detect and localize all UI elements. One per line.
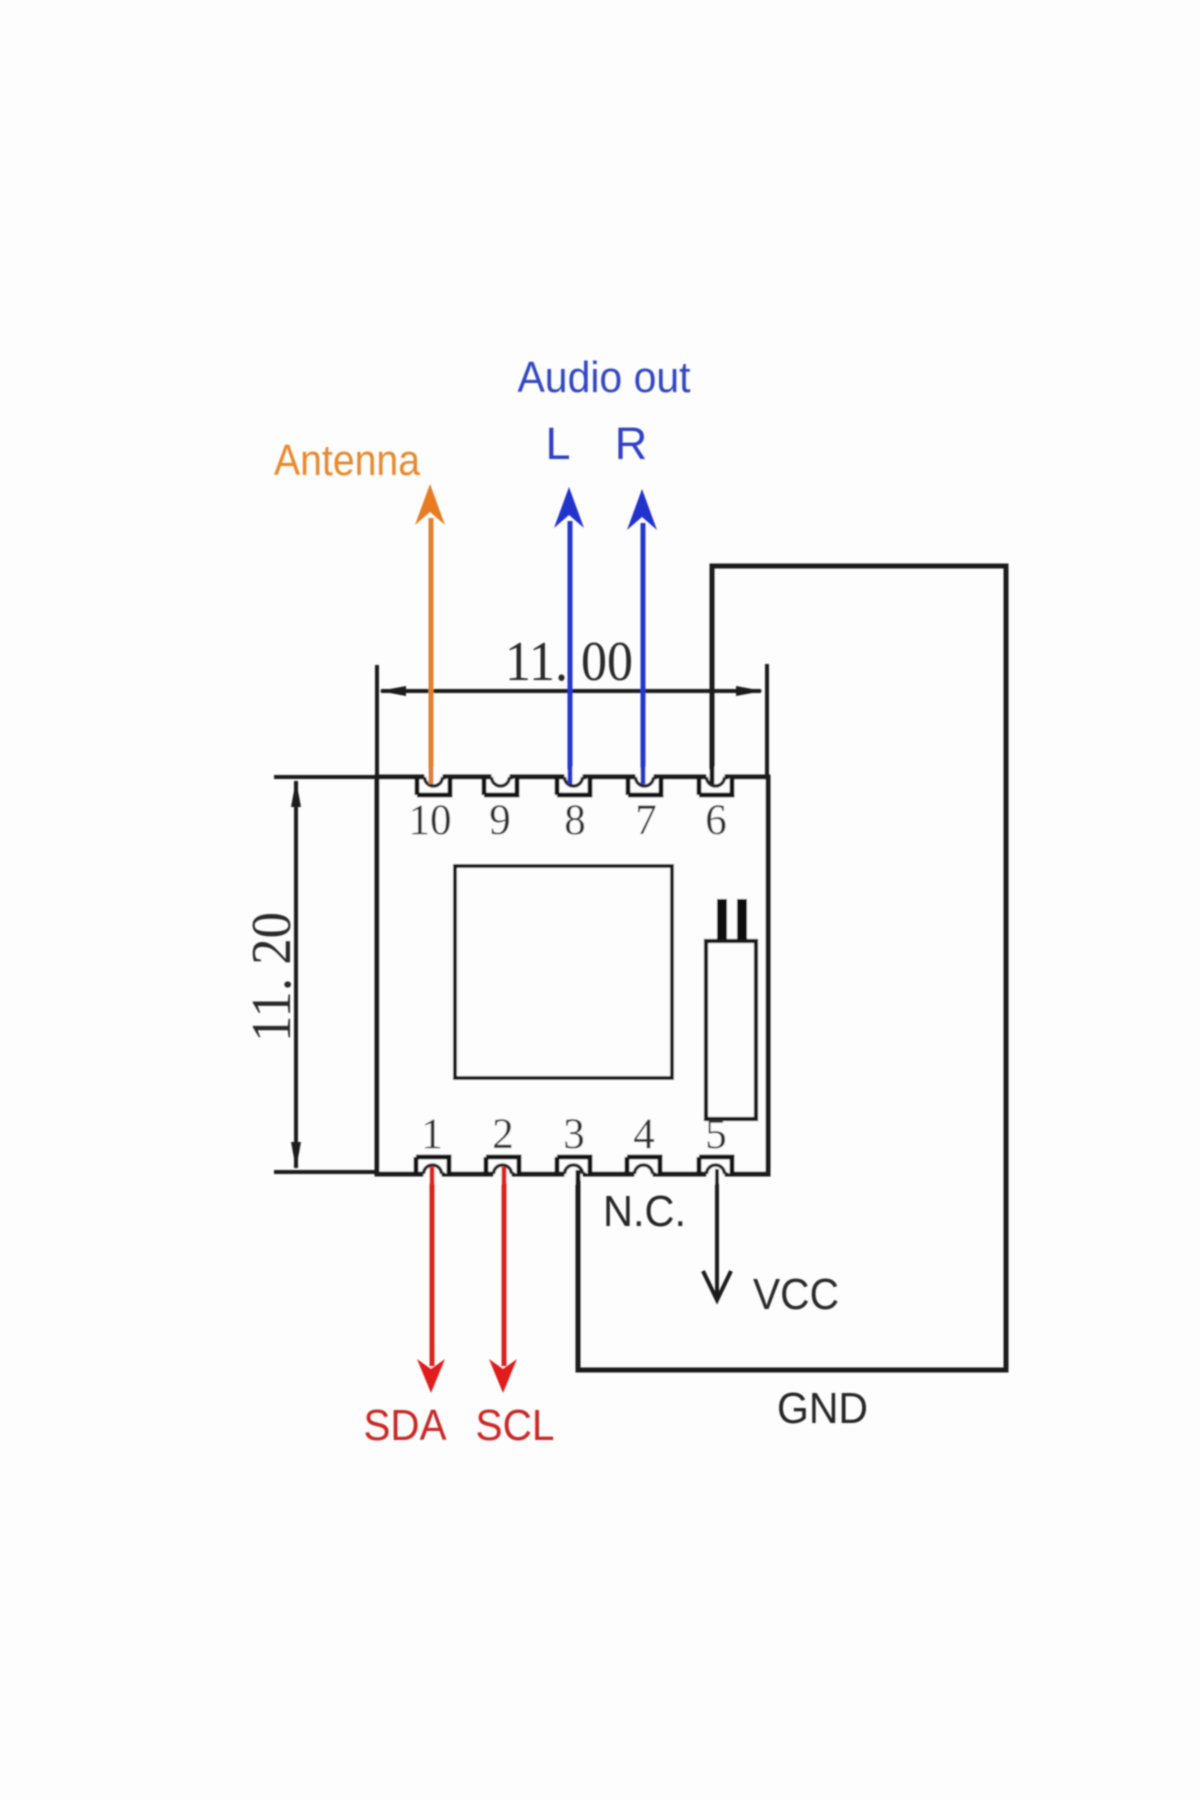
svg-text:SDA: SDA bbox=[364, 1401, 448, 1450]
svg-text:9: 9 bbox=[489, 797, 511, 844]
svg-text:3: 3 bbox=[563, 1111, 585, 1158]
svg-text:7: 7 bbox=[635, 797, 657, 844]
svg-text:L: L bbox=[545, 418, 570, 469]
svg-text:8: 8 bbox=[564, 797, 586, 844]
svg-text:10: 10 bbox=[409, 797, 452, 844]
svg-text:N.C.: N.C. bbox=[603, 1187, 686, 1236]
svg-text:6: 6 bbox=[705, 797, 727, 844]
svg-text:4: 4 bbox=[633, 1111, 655, 1158]
svg-text:SCL: SCL bbox=[476, 1401, 555, 1450]
svg-text:GND: GND bbox=[777, 1384, 868, 1433]
svg-text:5: 5 bbox=[705, 1111, 727, 1158]
svg-text:2: 2 bbox=[492, 1111, 514, 1158]
svg-text:11. 20: 11. 20 bbox=[241, 912, 303, 1042]
svg-text:Audio out: Audio out bbox=[518, 353, 691, 402]
svg-text:1: 1 bbox=[421, 1111, 443, 1158]
svg-text:R: R bbox=[615, 418, 648, 469]
svg-text:VCC: VCC bbox=[753, 1270, 839, 1319]
svg-text:Antenna: Antenna bbox=[274, 436, 420, 485]
